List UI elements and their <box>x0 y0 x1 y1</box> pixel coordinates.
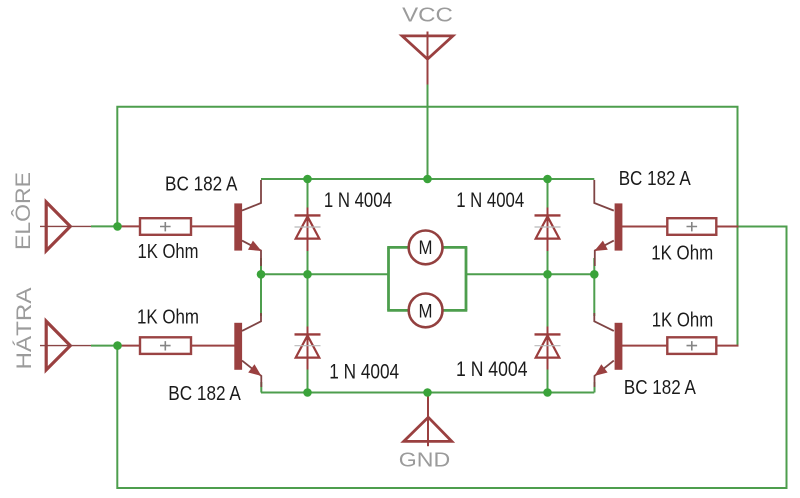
wire Q3 emitter to bottom rail <box>260 382 262 393</box>
junction bottom rail D4 <box>543 388 552 397</box>
transistor Q2 base bar <box>615 203 623 250</box>
transistor Q4 emitter arrow <box>595 364 608 376</box>
transistor Q1 base bar <box>234 203 242 250</box>
wire Q4 collector from mid rail <box>593 274 595 316</box>
wire diode column D3 <box>307 274 309 392</box>
transistor Q3 base bar <box>234 323 242 370</box>
svg-text:BC 182 A: BC 182 A <box>165 174 238 196</box>
wire Q1 emitter to mid rail <box>260 258 262 274</box>
wire HATRA input stub <box>91 345 119 347</box>
wire motor bracket left vertical <box>387 247 390 310</box>
diode D2 lead stub <box>547 208 549 252</box>
resistor R3 lead right <box>191 345 235 347</box>
svg-text:1K Ohm: 1K Ohm <box>138 241 199 263</box>
resistor R3 plus mark <box>160 341 171 350</box>
junction bottom rail D3 <box>303 388 312 397</box>
transistor Q2 collector line <box>594 180 614 211</box>
diode D3 triangle <box>296 336 320 358</box>
svg-text:BC 182 A: BC 182 A <box>168 383 241 405</box>
svg-text:1 N 4004: 1 N 4004 <box>456 189 524 212</box>
svg-text:1 N 4004: 1 N 4004 <box>324 189 392 212</box>
diode D4 triangle <box>536 336 560 358</box>
junction mid rail Q2 emitter <box>590 270 599 279</box>
wire Q3 collector from mid rail <box>260 274 262 316</box>
resistor R2 plus mark <box>687 222 698 231</box>
wire motor M1 left lead <box>387 246 408 249</box>
resistor R2 lead left <box>622 226 667 228</box>
transistor Q3 emitter arrow <box>248 364 261 376</box>
diode D1 triangle <box>296 217 320 239</box>
transistor Q4 collector line <box>594 313 614 331</box>
diode D1 cathode bar <box>295 214 321 216</box>
diode D1 lead stub <box>307 208 309 252</box>
svg-text:GND: GND <box>399 449 450 471</box>
resistor R3 body <box>140 337 191 354</box>
svg-text:1K Ohm: 1K Ohm <box>652 310 714 332</box>
ground symbol GND <box>404 417 452 441</box>
wire bottom emitter rail <box>261 392 594 394</box>
resistor R1 lead left <box>120 225 140 227</box>
diode D2 triangle <box>536 217 560 239</box>
junction top rail D1 <box>303 175 312 184</box>
diode D3 cathode bar <box>295 333 321 335</box>
svg-text:M: M <box>419 237 433 259</box>
resistor R4 lead left <box>622 345 667 347</box>
resistor R3 lead left <box>120 345 140 347</box>
wire ELORE input stub <box>91 225 119 227</box>
input pin ELORE arrow <box>46 202 70 251</box>
transistor Q1 emitter arrow <box>248 241 262 251</box>
svg-text:HÁTRA: HÁTRA <box>13 288 36 370</box>
svg-text:1 N 4004: 1 N 4004 <box>456 358 528 381</box>
junction mid rail Q1 emitter <box>257 270 266 279</box>
wire net HATRA: left vertical down, bottom horizontal, right vertical up to Q2 base resistor <box>117 227 786 489</box>
wire motor M1 right lead <box>444 246 468 249</box>
wire motor M2 left lead <box>387 309 408 312</box>
wire Q2 emitter to mid rail <box>593 258 595 274</box>
transistor Q1 emitter line <box>242 241 261 266</box>
resistor R4 lead right <box>716 345 738 347</box>
wire net ELORE: left vertical up, top horizontal, right vertical down to Q4 base resistor <box>117 107 737 346</box>
wire diode column D4 <box>547 274 549 392</box>
wire VCC drop <box>427 83 429 179</box>
diode D3 lead stub <box>307 327 309 370</box>
svg-text:BC 182 A: BC 182 A <box>624 377 697 399</box>
resistor R1 lead right <box>191 225 235 227</box>
resistor R4 plus mark <box>687 341 698 350</box>
diode D2 faint line <box>535 226 561 228</box>
svg-text:1K Ohm: 1K Ohm <box>137 307 199 329</box>
diode D3 faint line <box>295 345 321 347</box>
transistor Q2 emitter arrow <box>594 241 608 251</box>
junction HATRA input <box>113 341 122 350</box>
transistor Q4 emitter line <box>595 361 614 387</box>
diode D1 faint line <box>295 226 321 228</box>
motor M1 circle <box>409 231 443 265</box>
motor M2 circle <box>409 294 443 328</box>
transistor Q2 emitter line <box>595 241 614 266</box>
transistor Q4 base bar <box>615 323 623 370</box>
resistor R1 plus mark <box>160 222 171 231</box>
junction top rail D2 <box>543 175 552 184</box>
svg-text:1 N 4004: 1 N 4004 <box>329 361 399 384</box>
junction top rail VCC <box>423 175 432 184</box>
VCC symbol <box>402 36 453 59</box>
transistor Q3 collector line <box>242 313 261 331</box>
transistor Q3 emitter line <box>242 361 261 387</box>
wire mid-right rail <box>466 273 594 275</box>
wire diode column D1 <box>307 179 309 274</box>
diode D4 cathode bar <box>535 333 561 335</box>
svg-text:ELÔRE: ELÔRE <box>12 172 35 250</box>
junction mid rail D1-D3 <box>303 270 312 279</box>
wire top collector rail <box>261 178 594 180</box>
transistor Q1 collector line <box>242 180 261 211</box>
junction bottom rail GND <box>423 388 432 397</box>
diode D4 faint line <box>535 345 561 347</box>
svg-text:BC 182 A: BC 182 A <box>619 168 692 190</box>
wire diode column D2 <box>547 179 549 274</box>
wire mid-left rail <box>261 273 389 275</box>
resistor R2 body <box>667 218 716 235</box>
wire Q4 emitter to bottom rail <box>594 382 596 393</box>
wire motor bracket right vertical <box>465 247 468 310</box>
svg-text:1K Ohm: 1K Ohm <box>651 243 713 265</box>
svg-text:M: M <box>419 300 433 322</box>
resistor R2 lead right <box>716 226 738 228</box>
resistor R1 body <box>140 218 191 235</box>
diode D2 cathode bar <box>535 214 561 216</box>
junction ELORE input <box>113 222 122 231</box>
diode D4 lead stub <box>547 327 549 370</box>
input pin HATRA arrow <box>46 321 70 370</box>
wire motor M2 right lead <box>444 309 468 312</box>
svg-text:VCC: VCC <box>402 5 453 27</box>
junction mid rail D2-D4 <box>543 270 552 279</box>
resistor R4 body <box>667 337 716 354</box>
